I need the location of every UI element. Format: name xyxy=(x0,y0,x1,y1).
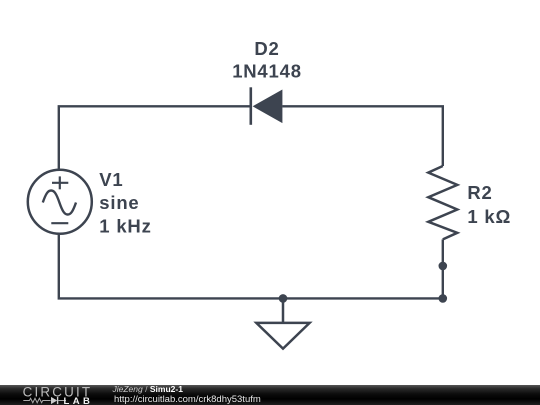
logo diode symbol xyxy=(51,396,57,403)
svg-text:sine: sine xyxy=(99,192,139,213)
resistor R2 xyxy=(428,166,457,239)
svg-text:1 kHz: 1 kHz xyxy=(99,215,151,236)
junction dot (ground node) xyxy=(279,294,288,303)
svg-text:R2: R2 xyxy=(467,182,492,203)
svg-text:D2: D2 xyxy=(254,38,279,59)
footer bar xyxy=(0,385,540,405)
svg-text:LAB: LAB xyxy=(64,396,94,405)
wire top-right L (diode anode to R2 top) xyxy=(282,106,443,166)
CircuitLab logo xyxy=(0,385,100,405)
logo wire with resistor squiggle xyxy=(23,398,50,402)
junction dot (bottom-right corner) xyxy=(439,294,448,303)
V1 plus sign xyxy=(52,176,68,189)
logo wire to LAB xyxy=(58,399,66,401)
footer url xyxy=(114,395,261,405)
wire right-bottom (R2 bottom to bottom rail) xyxy=(442,239,444,298)
wire bottom (V1 bottom along bottom rail to right corner) xyxy=(59,234,443,299)
footer author / title xyxy=(113,385,183,394)
wire top-left L (V1 top to diode cathode) xyxy=(59,106,251,170)
voltage source V1 xyxy=(28,170,92,234)
svg-text:1N4148: 1N4148 xyxy=(232,60,302,81)
diode D2 xyxy=(251,87,283,125)
junction dot (R2 bottom node) xyxy=(439,262,448,271)
ground xyxy=(256,298,309,348)
svg-text:V1: V1 xyxy=(99,169,123,190)
V1 minus sign xyxy=(51,222,68,224)
svg-text:1 kΩ: 1 kΩ xyxy=(467,206,511,227)
